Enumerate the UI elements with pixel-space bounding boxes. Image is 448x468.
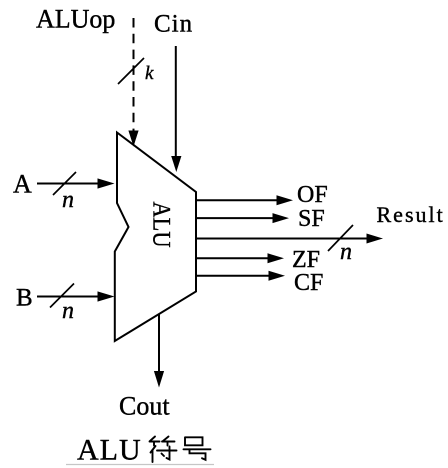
bus slash k	[118, 58, 144, 84]
wire Cout	[158, 314, 160, 372]
svg-text:B: B	[16, 285, 33, 312]
bus slash n (A)	[53, 172, 76, 195]
arrowhead Cin	[171, 156, 181, 172]
arrowhead ZF	[268, 253, 285, 263]
svg-text:n: n	[62, 298, 74, 324]
wire B	[37, 296, 99, 298]
arrowhead ALUop	[128, 131, 138, 147]
wire SF	[195, 217, 274, 219]
wire CF	[195, 275, 270, 277]
arrowhead SF	[273, 213, 290, 223]
bus slash n (Result)	[328, 225, 353, 251]
svg-text:k: k	[145, 63, 154, 84]
svg-text:SF: SF	[298, 206, 325, 232]
svg-text:A: A	[13, 170, 32, 199]
svg-text:ALU: ALU	[148, 202, 175, 248]
arrowhead B	[98, 291, 115, 301]
wire Result	[195, 238, 368, 240]
arrowhead Cout	[154, 371, 164, 388]
svg-text:Cout: Cout	[119, 392, 170, 421]
caption underline (faint)	[66, 464, 214, 466]
wire Cin	[175, 46, 177, 157]
wire A	[37, 183, 99, 185]
wire OF	[195, 199, 278, 201]
svg-text:CF: CF	[294, 270, 323, 296]
svg-text:ALUop: ALUop	[36, 5, 115, 34]
bus slash n (B)	[50, 284, 74, 308]
arrowhead CF	[269, 271, 286, 281]
arrowhead Result	[367, 234, 384, 244]
ALU body	[115, 133, 196, 342]
wire ALUop control (dashed)	[133, 18, 135, 131]
caption hanzi fu (符)	[150, 437, 177, 463]
svg-text:Cin: Cin	[154, 11, 193, 38]
svg-text:n: n	[62, 187, 74, 213]
arrowhead OF	[277, 195, 294, 205]
wire ZF	[195, 257, 269, 259]
caption hanzi hao (号)	[184, 437, 211, 460]
svg-text:OF: OF	[297, 182, 328, 208]
svg-text:ALU: ALU	[77, 434, 142, 467]
svg-text:n: n	[340, 239, 352, 265]
svg-text:Result: Result	[377, 202, 445, 227]
arrowhead A	[98, 178, 115, 188]
